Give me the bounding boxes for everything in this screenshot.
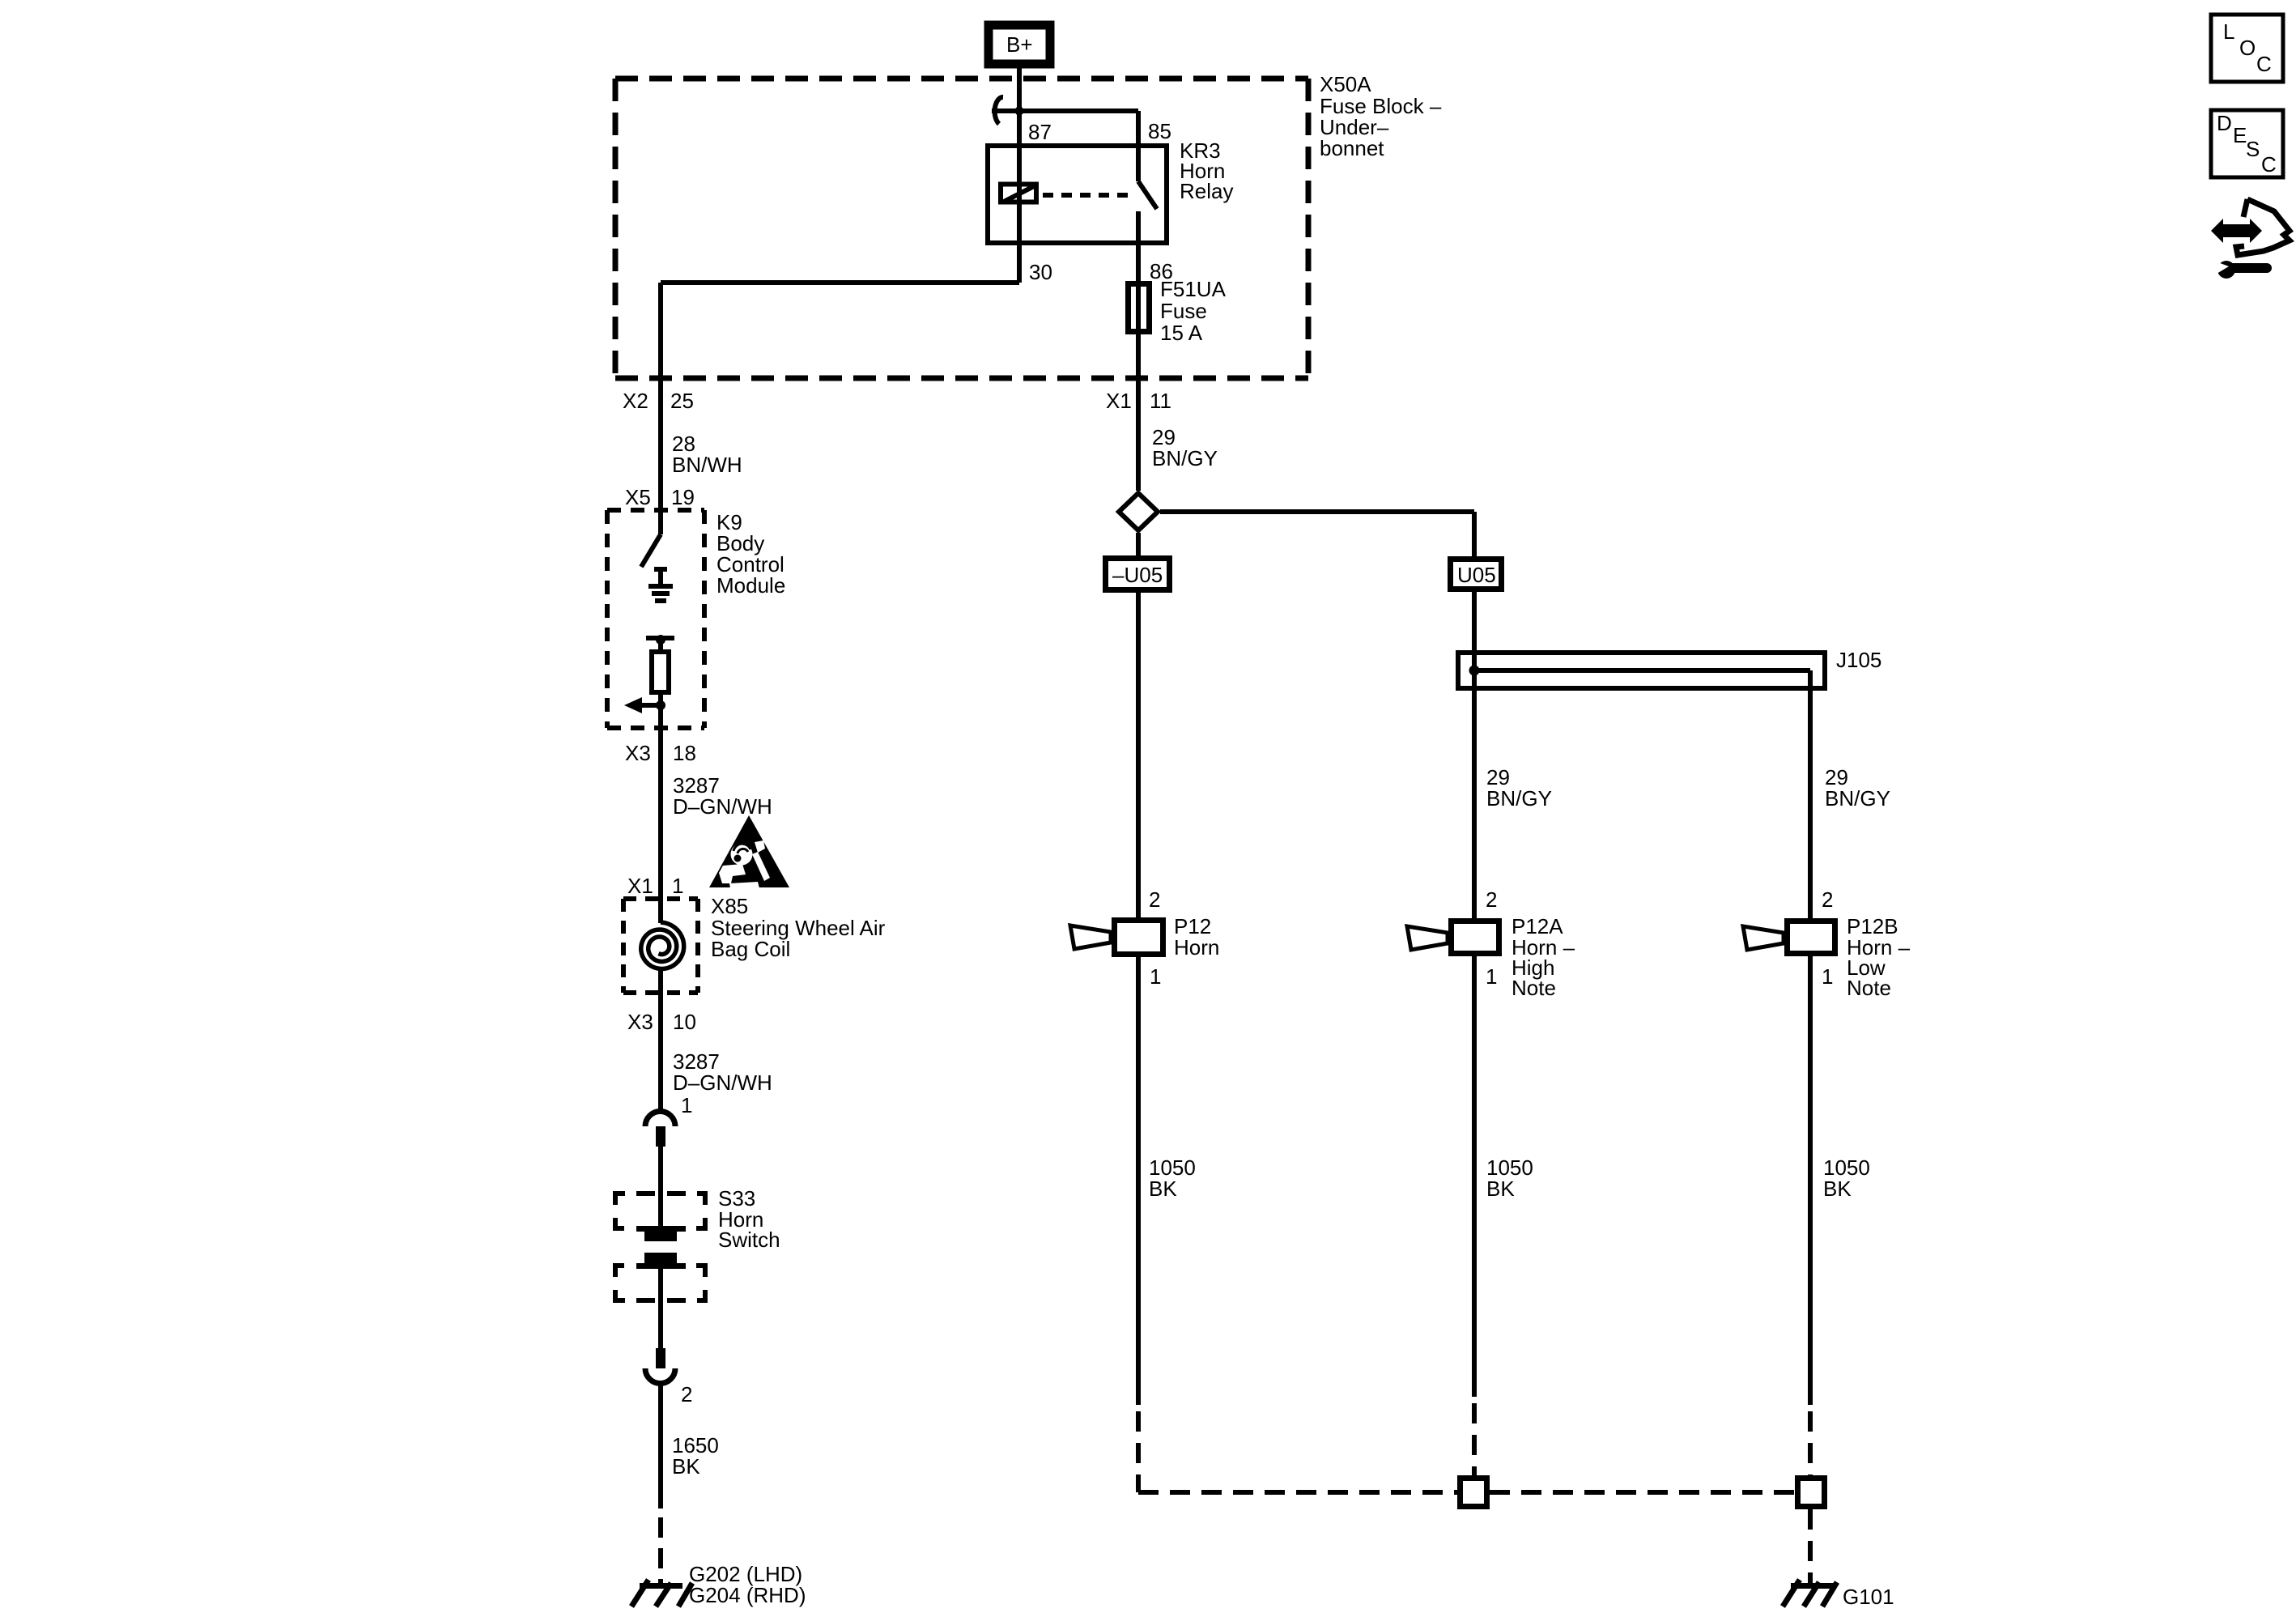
pin 85 label [1148,119,1171,143]
svg-text:X3: X3 [625,741,651,765]
svg-text:1: 1 [681,1093,692,1117]
connector label X2 25 [623,389,694,413]
net tag -U05 [1106,559,1170,590]
svg-text:11: 11 [1150,389,1171,413]
svg-text:F51UA: F51UA [1160,277,1227,301]
wire BCM output down [658,705,663,899]
BCM output arrow [624,697,665,713]
svg-text:D–GN/WH: D–GN/WH [673,794,772,819]
connector label X3 10 [627,1010,696,1034]
svg-text:Fuse: Fuse [1160,299,1207,323]
svg-text:E: E [2233,123,2247,147]
wire label 3287 D-GN/WH lower [673,1049,772,1095]
dashed ground bus left drop [1138,1411,1457,1492]
svg-text:2: 2 [1822,887,1833,912]
label G202 (LHD) G204 (RHD) [689,1562,806,1607]
splice pack J105 [1458,653,1825,691]
svg-text:L: L [2223,19,2234,44]
svg-text:BK: BK [672,1454,700,1479]
svg-text:15 A: 15 A [1160,321,1203,345]
svg-text:Bag Coil: Bag Coil [711,937,790,961]
wire label 29 BN/GY right [1825,765,1890,811]
svg-text:2: 2 [681,1382,692,1406]
svg-text:–U05: –U05 [1112,563,1163,587]
wire J105 down to horn P12B [1808,691,1813,918]
svg-text:2: 2 [1486,887,1497,912]
svg-text:O: O [2239,36,2256,60]
svg-text:X2: X2 [623,389,648,413]
pin 87 label [1028,120,1052,144]
svg-text:Note: Note [1847,976,1891,1000]
svg-text:X1: X1 [1106,389,1132,413]
fuse F51UA 15A [1129,283,1150,332]
svg-text:Horn: Horn [1174,935,1219,960]
label K9 Body Control Module [716,510,785,598]
svg-text:1: 1 [672,874,683,898]
svg-text:2: 2 [1149,887,1160,912]
svg-text:U05: U05 [1457,563,1496,587]
connector label X5 19 [625,485,695,509]
junction dot at B+ branch [1015,107,1024,116]
BCM driver rail tap [646,635,674,652]
wire fuse down through X1 11 [1136,334,1141,491]
splice diamond junction [1119,493,1158,530]
svg-text:B+: B+ [1006,32,1033,57]
svg-text:D–GN/WH: D–GN/WH [673,1070,772,1095]
horn P12 [1070,921,1163,955]
ground splice square S2 [1798,1479,1825,1507]
pin 1 label P12 [1150,964,1161,989]
ground splice square S1 [1461,1479,1487,1507]
svg-text:X5: X5 [625,485,651,509]
node B+ battery feed [989,25,1050,64]
svg-text:1: 1 [1150,964,1161,989]
label X85 Steering Wheel Air Bag Coil [711,894,886,961]
wire label 1050 BK right [1823,1155,1870,1201]
svg-text:25: 25 [670,389,694,413]
svg-text:C: C [2261,152,2277,177]
label KR3 Horn Relay [1180,138,1233,203]
pin 86 label [1150,259,1173,283]
svg-text:BN/GY: BN/GY [1152,446,1218,470]
svg-text:BN/WH: BN/WH [672,453,742,477]
pin 1 label P12B [1822,964,1833,989]
connector label X1 11 [1106,389,1171,413]
connector label X3 18 [625,741,696,765]
svg-text:BN/GY: BN/GY [1825,786,1890,811]
dashed drop P12B [1808,1411,1813,1475]
label S33 Horn Switch [718,1186,780,1252]
svg-text:87: 87 [1028,120,1052,144]
wire B+ down to junction [1017,68,1022,283]
net tag U05 [1451,560,1502,589]
label X50A Fuse Block - Underbonnet [1320,72,1442,160]
wire label 29 BN/GY mid [1486,765,1552,811]
wire label 1050 BK mid [1486,1155,1533,1201]
svg-text:X50A: X50A [1320,72,1371,96]
label G101 [1843,1585,1894,1609]
wire label 3287 D-GN/WH upper [673,773,772,819]
wire diamond to -U05 [1136,533,1141,557]
wire P12B pin1 down [1808,956,1813,1405]
DESC legend box [2211,110,2283,177]
wire junction to pin 85 [992,111,1138,181]
label P12 Horn [1174,914,1219,960]
label J105 [1836,648,1881,672]
svg-text:BK: BK [1823,1177,1852,1201]
horn P12A [1407,921,1499,954]
svg-text:BN/GY: BN/GY [1486,786,1552,811]
svg-text:D: D [2217,111,2232,135]
horn P12B [1743,921,1835,954]
svg-text:X1: X1 [627,874,653,898]
label F51UA Fuse 15 A [1160,277,1227,345]
BCM internal ground [648,567,673,601]
relay switch blade [1138,181,1157,245]
service icon wrench [2216,261,2267,279]
wire J105 down to horn P12A [1472,670,1477,918]
horn switch S33 upper dashed bracket [613,1191,708,1231]
svg-text:S: S [2246,137,2260,161]
wire pin 86 to fuse [1136,245,1141,281]
connector arc at relay pin 87 feed [995,97,1003,124]
wire coil through pin 30 [661,283,1019,534]
wire label 1050 BK left [1149,1155,1196,1201]
svg-text:85: 85 [1148,119,1171,143]
svg-text:10: 10 [673,1010,696,1034]
wire label 1650 BK [672,1433,719,1479]
pin 2 label P12A [1486,887,1497,912]
inline connector pin 1 [645,1093,692,1147]
svg-text:30: 30 [1029,260,1052,284]
svg-text:BK: BK [1486,1177,1515,1201]
svg-text:1: 1 [1486,964,1497,989]
dashed bus S1 to S2 [1490,1490,1795,1495]
svg-text:Switch: Switch [718,1228,780,1252]
wire connector to switch [658,1147,663,1226]
label P12A Horn High Note [1512,914,1575,1000]
wire P12 pin1 down [1136,957,1141,1405]
wire -U05 down to horn P12 [1136,592,1141,917]
svg-text:X3: X3 [627,1010,653,1034]
svg-text:J105: J105 [1836,648,1881,672]
BCM K9 dashed box [607,510,704,728]
horn switch S33 lower dashed bracket [613,1263,708,1303]
relay KR3 box [988,146,1167,243]
relay coil [1001,185,1036,202]
svg-text:bonnet: bonnet [1320,136,1384,160]
wire coil down to horn switch [658,993,663,1111]
ground G101 [1783,1580,1837,1606]
dashed wire to ground G202 [658,1517,663,1584]
dashed S2 down to G101 [1808,1509,1813,1584]
inline connector pin 2 [645,1348,692,1406]
fuse block X50A dashed outline [615,79,1308,378]
svg-text:19: 19 [671,485,695,509]
horn switch contacts [636,1226,686,1269]
service icon double arrow [2211,219,2262,243]
svg-text:C: C [2256,52,2272,76]
pin 2 label P12 [1149,887,1160,912]
wire label 29 BN/GY upper [1152,425,1218,470]
ground G202/G204 [631,1580,692,1606]
svg-text:G101: G101 [1843,1585,1894,1609]
wire label 28 BN/WH [672,432,742,477]
svg-text:G204 (RHD): G204 (RHD) [689,1583,806,1607]
clockspring coil spiral [641,899,684,993]
svg-text:18: 18 [673,741,696,765]
svg-text:Module: Module [716,573,785,598]
label P12B Horn Low Note [1847,914,1911,1000]
relay actuating dashed link [1043,193,1133,198]
svg-text:Note: Note [1512,976,1556,1000]
BCM driver resistor [652,652,669,705]
pin 1 label P12A [1486,964,1497,989]
dashed drop P12A [1472,1403,1477,1475]
pin 2 label P12B [1822,887,1833,912]
wire U05 down to J105 [1472,592,1477,670]
wire P12A pin1 down [1472,956,1477,1397]
air bag warning triangle [709,815,789,888]
wire diamond right branch to U05 [1160,512,1474,556]
air bag coil X85 dashed box [623,899,698,993]
pin 30 label [1029,260,1052,284]
wire 1650 BK [658,1381,663,1508]
LOC legend box [2211,15,2283,82]
svg-text:BK: BK [1149,1177,1177,1201]
svg-text:1: 1 [1822,964,1833,989]
connector label X1 1 [627,874,683,898]
svg-text:X85: X85 [711,894,748,918]
wire switch to connector pin 2 [658,1269,663,1348]
BCM input switch blade [641,534,661,567]
service icon panel outline [2236,199,2290,255]
svg-text:Relay: Relay [1180,179,1233,203]
